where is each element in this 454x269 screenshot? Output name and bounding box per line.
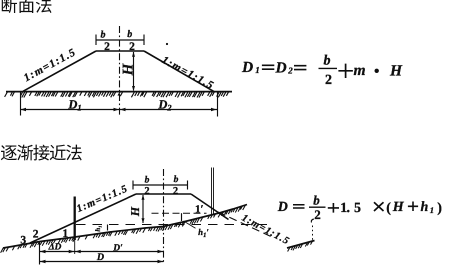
ground line <box>6 91 232 93</box>
b/2 dimension bar (fraction bar) at crest <box>96 39 144 41</box>
dotted vertical at lower-right <box>312 226 314 242</box>
bottom centerline (dash-dot) <box>163 169 165 263</box>
svg-text:D2: D2 <box>157 98 172 113</box>
svg-text:D1: D1 <box>67 98 81 113</box>
svg-text:h₁: h₁ <box>94 225 102 231</box>
svg-text:3: 3 <box>20 234 26 246</box>
ground hatch bottom figure <box>1 205 246 253</box>
svg-text:h: h <box>421 200 429 215</box>
svg-text:1: 1 <box>62 228 68 240</box>
bottom formula D=b/2+1.5x(H+h1) <box>277 192 442 222</box>
svg-text:5: 5 <box>354 201 361 216</box>
right slope stake (double line pole) <box>212 168 214 216</box>
svg-text:b: b <box>324 54 331 69</box>
bottom right slope line <box>191 194 229 220</box>
svg-text:D′: D′ <box>112 244 123 254</box>
svg-text:b: b <box>145 176 150 186</box>
bottom crest (top edge) <box>136 193 191 195</box>
right slope line 1:1.5 <box>144 51 214 92</box>
svg-text:D: D <box>241 59 253 76</box>
lower-right ground segment <box>287 241 315 249</box>
left extension line at toe <box>20 92 22 116</box>
svg-text:2: 2 <box>129 41 135 53</box>
svg-text:H: H <box>392 200 405 215</box>
title 断面法 (cross-section method) <box>2 0 52 13</box>
svg-text:b: b <box>313 192 320 207</box>
D dimension line <box>40 261 164 263</box>
H dimension line <box>133 52 135 91</box>
stray scan mark below fraction <box>311 219 314 223</box>
svg-text:b: b <box>127 29 132 40</box>
svg-text:ΔD: ΔD <box>48 243 62 253</box>
svg-text:2: 2 <box>104 41 110 53</box>
svg-text:1′: 1′ <box>195 203 204 215</box>
svg-text:1: 1 <box>255 65 259 75</box>
Delta-D / D-prime dimension line <box>40 251 164 253</box>
dashed slope line to the right (1:1.5 trial) <box>218 212 272 237</box>
svg-text:2: 2 <box>144 186 149 197</box>
D1 D2 dimension line <box>20 109 217 111</box>
extension below pole <box>74 240 76 254</box>
top figure centerline (dash-dot) <box>119 26 121 117</box>
b/2 bar left tick <box>95 35 97 46</box>
bottom b/2 left tick <box>132 181 134 190</box>
svg-text:D: D <box>277 200 288 215</box>
svg-text:.: . <box>347 201 351 216</box>
top formula D1=D2=b/2+m*H <box>241 54 403 89</box>
svg-text:D: D <box>275 59 287 76</box>
svg-text:H: H <box>121 62 137 76</box>
svg-text:2: 2 <box>314 207 321 222</box>
svg-text:D: D <box>96 252 104 263</box>
svg-text:H: H <box>389 63 403 80</box>
bottom left slope line <box>30 194 136 243</box>
svg-text:2: 2 <box>33 228 39 240</box>
svg-text:1:m=1:1.5: 1:m=1:1.5 <box>160 54 216 92</box>
stray dot mark <box>166 43 168 45</box>
svg-text:1: 1 <box>430 205 434 215</box>
bottom b/2 right tick <box>187 181 189 190</box>
svg-text:2: 2 <box>325 73 332 88</box>
svg-text:1:m=1:1.5: 1:m=1:1.5 <box>240 213 292 248</box>
svg-text:m: m <box>354 62 366 79</box>
svg-text:): ) <box>437 201 442 216</box>
small h1-prime tick <box>107 225 109 231</box>
left slope stake (pole at point 1) <box>74 197 76 241</box>
b/2 dimension bar bottom <box>133 184 188 186</box>
horizontal dashed reference line (level of H base) <box>76 224 268 226</box>
svg-text:H: H <box>128 206 142 217</box>
svg-text:h1′: h1′ <box>198 227 209 239</box>
b/2 bar right tick <box>143 35 145 46</box>
svg-text:2: 2 <box>173 186 178 197</box>
title 逐渐接近法 (successive approximation method) <box>1 145 82 161</box>
ground hatch top figure <box>5 92 229 98</box>
svg-text:2: 2 <box>287 65 293 75</box>
natural ground line (hillside) <box>3 205 247 249</box>
extension line at point 2 <box>39 241 41 265</box>
bottom H dimension line <box>142 195 144 223</box>
right extension line at toe <box>217 92 219 117</box>
leader line for h1 <box>184 221 196 228</box>
svg-text:b: b <box>101 30 106 41</box>
left slope line 1:1.5 <box>23 51 96 91</box>
tick under 1-prime for h1 <box>181 213 183 221</box>
embankment crest (top edge) <box>96 50 144 52</box>
svg-text:(: ( <box>386 201 391 216</box>
horizontal dashed line at point 1-prime level <box>152 212 207 214</box>
svg-text:b: b <box>174 175 179 185</box>
